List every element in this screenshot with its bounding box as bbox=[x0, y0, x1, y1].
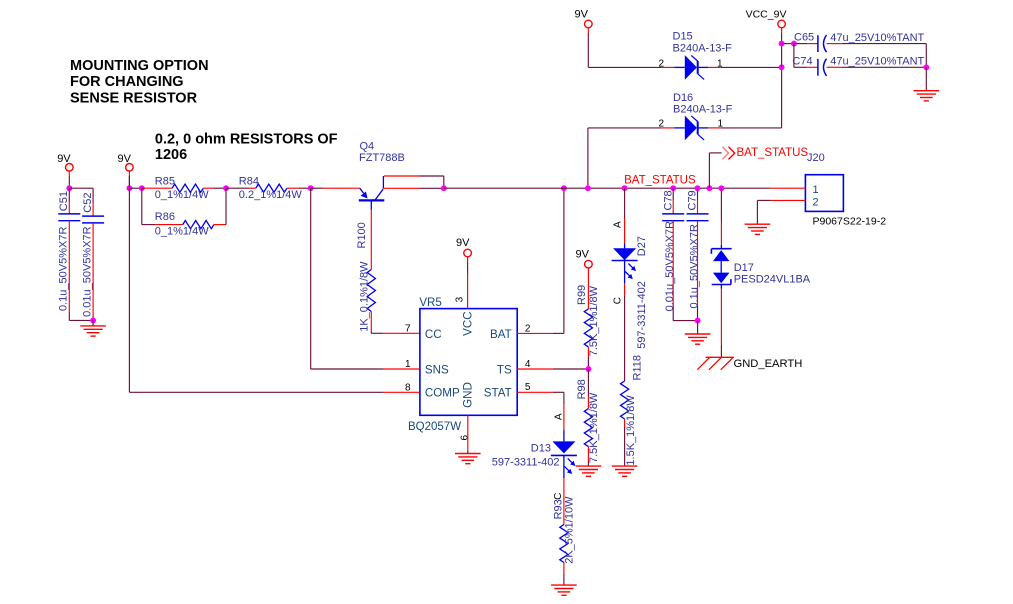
capacitor C51 bbox=[58, 214, 80, 221]
value C74 47u_25V10%TANT bbox=[830, 56, 924, 68]
svg-text:C65: C65 bbox=[794, 31, 814, 43]
node junction C78 C79 bottom bbox=[695, 318, 701, 324]
svg-text:R85: R85 bbox=[155, 176, 175, 188]
svg-text:9V: 9V bbox=[575, 9, 589, 21]
op-amp U VR5 BQ2057W box bbox=[420, 309, 517, 416]
svg-text:2: 2 bbox=[659, 58, 665, 69]
svg-text:J20: J20 bbox=[807, 152, 825, 164]
value D17 PESD24VL1BA bbox=[734, 273, 811, 285]
label R99 bbox=[576, 285, 588, 305]
pin name SNS bbox=[425, 363, 449, 376]
wire C52 lower lead bbox=[92, 223, 94, 321]
annotation text block 0.2 0 ohm resistors bbox=[155, 132, 338, 163]
wire C51 upper lead bbox=[68, 188, 70, 214]
pin label C D27 bbox=[612, 297, 623, 304]
svg-text:C: C bbox=[612, 297, 623, 304]
wire C52 upper lead bbox=[92, 203, 94, 216]
wire D27 anode lead bbox=[624, 188, 626, 248]
node junction TS R99 R98 bbox=[585, 366, 591, 372]
transistor Q4 PNP bbox=[359, 176, 385, 210]
svg-text:2: 2 bbox=[659, 118, 665, 129]
svg-text:5: 5 bbox=[525, 382, 531, 393]
svg-text:1206: 1206 bbox=[155, 147, 187, 163]
value J20 P9067S22-19-2 bbox=[813, 216, 887, 228]
svg-text:3: 3 bbox=[454, 296, 465, 302]
wire 9V to C51 top bbox=[68, 176, 70, 188]
svg-text:R98: R98 bbox=[576, 379, 588, 399]
pin name TS bbox=[497, 363, 512, 376]
net label BAT_STATUS off-page bbox=[737, 147, 809, 159]
svg-text:BAT_STATUS: BAT_STATUS bbox=[737, 147, 809, 159]
wire 9V to R85 node bbox=[128, 176, 130, 188]
node junction off-page branch bbox=[706, 185, 712, 191]
svg-text:C79: C79 bbox=[687, 190, 699, 210]
wire C78 upper lead bbox=[672, 188, 674, 214]
label BQ2057W bbox=[408, 421, 461, 433]
wire R84 right lead bbox=[287, 187, 311, 189]
ground R93 bbox=[551, 585, 577, 595]
svg-text:B240A-13-F: B240A-13-F bbox=[673, 42, 733, 54]
svg-text:0_1%1/4W: 0_1%1/4W bbox=[155, 226, 209, 238]
svg-text:R100: R100 bbox=[356, 222, 368, 248]
label D15 bbox=[673, 31, 693, 43]
svg-text:7.5K_1%1/8W: 7.5K_1%1/8W bbox=[588, 285, 600, 356]
pin 1 J20 bbox=[813, 184, 819, 196]
diode D16 B240A-13-F bbox=[674, 116, 708, 141]
svg-text:6: 6 bbox=[459, 435, 470, 441]
value C78 0.01u_50V5%X7R bbox=[664, 221, 676, 312]
node junction Q4 collector bbox=[441, 185, 447, 191]
ground J20 pin2 bbox=[745, 224, 771, 234]
wire main battery bus bbox=[444, 187, 771, 189]
TVS diode D17 PESD24VL1BA bbox=[711, 249, 731, 285]
pin number 2 bbox=[525, 324, 531, 335]
wire J20 pin1 bbox=[771, 187, 806, 189]
label D16 bbox=[673, 92, 693, 104]
capacitor C65 bbox=[818, 35, 827, 52]
svg-text:BAT_STATUS: BAT_STATUS bbox=[624, 175, 696, 187]
value R98 7.5K_1%1/8W bbox=[588, 392, 600, 463]
pin number 1 D16 bbox=[718, 118, 724, 129]
pin name STAT bbox=[484, 387, 512, 400]
wire to ground C51 C52 bbox=[92, 320, 94, 326]
label C65 bbox=[794, 31, 814, 43]
value R99 7.5K_1%1/8W bbox=[588, 285, 600, 356]
svg-text:R99: R99 bbox=[576, 285, 588, 305]
svg-text:0.2_1%1/4W: 0.2_1%1/4W bbox=[239, 189, 303, 201]
svg-text:0.01u_50V5%X7R: 0.01u_50V5%X7R bbox=[664, 221, 676, 312]
pin name CC bbox=[425, 328, 442, 341]
label R93 bbox=[553, 499, 565, 519]
value D27 597-3311-402 bbox=[636, 281, 648, 349]
wire SNS run bbox=[311, 188, 420, 369]
annotation text block MOUNTING OPTION bbox=[70, 58, 209, 107]
wire GND pin 6 bbox=[467, 415, 469, 453]
svg-text:4: 4 bbox=[525, 359, 531, 370]
svg-text:Q4: Q4 bbox=[360, 140, 375, 152]
label C74 bbox=[792, 56, 812, 68]
wire J20 pin2 bbox=[757, 200, 805, 224]
svg-text:D16: D16 bbox=[673, 92, 693, 104]
wire R118 to ground bbox=[624, 419, 626, 466]
wire C51 lower lead bbox=[69, 221, 93, 321]
wire VCC pin 3 bbox=[467, 262, 469, 309]
svg-text:D17: D17 bbox=[734, 262, 754, 274]
net label BAT_STATUS on bus bbox=[624, 175, 696, 187]
svg-text:9V: 9V bbox=[456, 237, 470, 249]
pin name VCC rotated bbox=[461, 311, 474, 335]
diode D15 B240A-13-F bbox=[674, 55, 708, 80]
wire to ground C78 C79 bbox=[697, 321, 699, 334]
pin label A D27 bbox=[612, 221, 623, 228]
pin number 5 bbox=[525, 382, 531, 393]
node junction D16 branch bbox=[585, 185, 591, 191]
ground VR5 GND bbox=[455, 454, 481, 464]
svg-text:597-3311-402: 597-3311-402 bbox=[636, 281, 648, 349]
label R98 bbox=[576, 379, 588, 399]
wire STAT pin to D13 bbox=[517, 392, 564, 441]
power symbol 9V (R99) bbox=[576, 249, 593, 273]
value R84 0.2_1%1/4W bbox=[239, 189, 303, 201]
wire R85 right lead bbox=[203, 187, 226, 189]
node junction R85 R86 right bbox=[223, 185, 229, 191]
wire R99 to TS node bbox=[587, 347, 589, 369]
label C78 bbox=[662, 190, 674, 210]
wire R86 branch right bbox=[214, 188, 226, 224]
wire to ground C65 C74 bbox=[925, 67, 927, 90]
wire 9V to D15 anode bbox=[588, 33, 674, 67]
node junction C79 bbox=[695, 185, 701, 191]
wire VCC_9V down bbox=[781, 33, 783, 67]
pin number 7 bbox=[405, 324, 411, 335]
svg-text:C52: C52 bbox=[82, 193, 94, 213]
svg-text:CC: CC bbox=[425, 328, 442, 341]
svg-text:B240A-13-F: B240A-13-F bbox=[673, 104, 733, 116]
wire Q4 collector loop top bbox=[384, 176, 444, 188]
resistor R98 bbox=[584, 409, 592, 447]
wire Q4 base to R100 bbox=[370, 210, 372, 270]
resistor R100 bbox=[367, 270, 375, 312]
node junction C78 bbox=[670, 185, 676, 191]
svg-text:R118: R118 bbox=[631, 355, 643, 380]
wire to Q4 emitter bbox=[311, 187, 360, 189]
svg-text:PESD24VL1BA: PESD24VL1BA bbox=[734, 273, 811, 285]
label C52 bbox=[82, 193, 94, 213]
svg-text:1.5K_1%1/8W: 1.5K_1%1/8W bbox=[625, 395, 637, 466]
svg-text:BAT: BAT bbox=[490, 328, 512, 341]
capacitor C79 bbox=[687, 214, 709, 221]
resistor R84 bbox=[256, 184, 287, 192]
wire C79 upper lead bbox=[697, 188, 699, 214]
svg-text:0.01u_50V5%X7R: 0.01u_50V5%X7R bbox=[81, 226, 93, 317]
svg-text:9V: 9V bbox=[576, 249, 590, 261]
value R85 0_1%1/4W bbox=[155, 189, 209, 201]
capacitor C74 bbox=[818, 59, 827, 76]
pin number 8 bbox=[405, 383, 411, 394]
value R100 1K_0.1%1/8W bbox=[359, 261, 371, 332]
svg-text:MOUNTING OPTION: MOUNTING OPTION bbox=[70, 58, 209, 74]
wire R86 branch left bbox=[142, 188, 183, 224]
svg-text:597-3311-402: 597-3311-402 bbox=[492, 457, 560, 469]
resistor R86 bbox=[183, 221, 214, 229]
pin number 1 bbox=[405, 359, 411, 370]
wire VCC to C65 branch bbox=[782, 43, 794, 45]
label D13 bbox=[531, 443, 551, 455]
label GND_EARTH bbox=[734, 358, 803, 370]
wire C74 right lead bbox=[827, 66, 927, 68]
wire C51 top to C52 top bbox=[69, 188, 93, 203]
label R100 bbox=[356, 222, 368, 248]
wire D17 top lead bbox=[720, 188, 722, 249]
value C51 0.1u_50V5%X7R bbox=[58, 227, 70, 311]
wire TS pin to R99 node bbox=[517, 368, 588, 370]
ground R118 bbox=[612, 466, 638, 476]
wire TS node to R98 bbox=[587, 369, 589, 409]
svg-text:C51: C51 bbox=[58, 191, 70, 211]
capacitor C52 bbox=[82, 216, 104, 223]
value C52 0.01u_50V5%X7R bbox=[81, 226, 93, 317]
label R85 bbox=[155, 176, 175, 188]
label D27 bbox=[636, 236, 648, 256]
pin label A D13 bbox=[554, 413, 565, 420]
power symbol 9V (C51 rail) bbox=[57, 153, 73, 176]
svg-text:47u_25V10%TANT: 47u_25V10%TANT bbox=[830, 56, 924, 68]
svg-text:FZT788B: FZT788B bbox=[359, 152, 405, 164]
wire BAT pin to main bbox=[517, 188, 564, 333]
value C65 47u_25V10%TANT bbox=[830, 32, 924, 44]
pin number 2 D16 bbox=[659, 118, 665, 129]
svg-text:TS: TS bbox=[497, 363, 512, 376]
wire C79 lower lead bbox=[697, 221, 699, 321]
wire Q4 collector to node bbox=[384, 187, 444, 189]
ground earth GND_EARTH bbox=[697, 357, 734, 369]
svg-text:SNS: SNS bbox=[425, 363, 449, 376]
svg-text:1K_0.1%1/8W: 1K_0.1%1/8W bbox=[359, 261, 371, 332]
node junction BAT main bbox=[561, 185, 567, 191]
svg-text:SENSE RESISTOR: SENSE RESISTOR bbox=[70, 91, 198, 107]
wire D17 bottom lead bbox=[720, 285, 722, 358]
svg-text:0.2, 0 ohm RESISTORS OF: 0.2, 0 ohm RESISTORS OF bbox=[155, 132, 338, 148]
label R84 bbox=[239, 176, 259, 188]
svg-text:2: 2 bbox=[813, 196, 819, 208]
node junction C51 top bbox=[66, 185, 72, 191]
wire R84 left lead bbox=[226, 187, 256, 189]
node junction R85 R86 left bbox=[139, 185, 145, 191]
svg-text:D27: D27 bbox=[636, 236, 648, 256]
svg-text:C74: C74 bbox=[792, 56, 812, 68]
svg-text:C78: C78 bbox=[662, 190, 674, 210]
svg-text:7: 7 bbox=[405, 324, 411, 335]
svg-text:GND: GND bbox=[461, 382, 474, 408]
wire D13 cathode lead bbox=[563, 455, 565, 524]
pin label C D13 bbox=[553, 493, 564, 500]
value D15 B240A-13-F bbox=[673, 42, 733, 54]
svg-text:47u_25V10%TANT: 47u_25V10%TANT bbox=[830, 32, 924, 44]
svg-text:A: A bbox=[612, 221, 623, 228]
pin number 2 D15 bbox=[659, 58, 665, 69]
off-page connector BAT_STATUS chevrons bbox=[722, 147, 734, 160]
capacitor C78 bbox=[662, 214, 684, 221]
power symbol 9V (VR5 VCC) bbox=[456, 237, 471, 262]
svg-text:A: A bbox=[554, 413, 565, 420]
wire D16 cathode to VCC rail bbox=[708, 67, 781, 128]
power symbol 9V (R85 rail) bbox=[118, 153, 134, 176]
value R86 0_1%1/4W bbox=[155, 226, 209, 238]
pin name COMP bbox=[425, 387, 460, 400]
node junction C65 C74 right bbox=[923, 64, 929, 70]
resistor R118 bbox=[621, 381, 629, 419]
wire 9V node to R86 branch bbox=[129, 187, 141, 189]
label J20 bbox=[807, 152, 825, 164]
node junction 9V R85 bbox=[126, 185, 132, 191]
value D16 B240A-13-F bbox=[673, 104, 733, 116]
connector J20 box bbox=[805, 175, 843, 212]
node junction D17 bbox=[718, 185, 724, 191]
resistor R93 bbox=[560, 525, 568, 563]
wire R85 left lead bbox=[142, 187, 172, 189]
pin number 4 bbox=[525, 359, 531, 370]
svg-text:D13: D13 bbox=[531, 443, 551, 455]
svg-text:P9067S22-19-2: P9067S22-19-2 bbox=[813, 216, 887, 228]
ground C51 C52 bbox=[80, 326, 106, 336]
node junction D27 branch bbox=[622, 185, 628, 191]
ground C78 C79 bbox=[685, 334, 711, 344]
node junction SNS branch bbox=[308, 185, 314, 191]
pin number 1 D15 bbox=[717, 58, 723, 69]
wire C65 left lead bbox=[794, 43, 818, 45]
svg-text:R86: R86 bbox=[155, 211, 175, 223]
wire R98 to ground bbox=[587, 447, 589, 467]
svg-text:0.1u_50V5%X7R: 0.1u_50V5%X7R bbox=[58, 227, 70, 311]
svg-text:VCC_9V: VCC_9V bbox=[746, 9, 787, 21]
wire D27 cathode lead bbox=[624, 261, 626, 382]
value R93 2K_5%1/10W bbox=[564, 496, 576, 564]
node junction C51 C52 bottom bbox=[90, 317, 96, 323]
power symbol 9V (D15 input) bbox=[575, 9, 593, 34]
svg-text:VR5: VR5 bbox=[419, 297, 441, 309]
svg-text:R84: R84 bbox=[239, 176, 259, 188]
ground R98 bbox=[576, 466, 602, 476]
pin 2 J20 bbox=[813, 196, 819, 208]
wire R93 to ground bbox=[563, 563, 565, 586]
svg-text:0.1u_50V5%X7R: 0.1u_50V5%X7R bbox=[688, 224, 700, 308]
wire C78 lower lead bbox=[673, 221, 697, 321]
wire off-page BAT_STATUS bbox=[709, 153, 721, 188]
pin number 6 rotated bbox=[459, 435, 470, 441]
value C79 0.1u_50V5%X7R bbox=[688, 224, 700, 308]
svg-text:BQ2057W: BQ2057W bbox=[408, 421, 461, 433]
resistor R85 bbox=[172, 184, 203, 192]
svg-text:D15: D15 bbox=[673, 31, 693, 43]
svg-text:2K_5%1/10W: 2K_5%1/10W bbox=[564, 496, 576, 564]
label D17 bbox=[734, 262, 754, 274]
label C51 bbox=[58, 191, 70, 211]
svg-text:0_1%1/4W: 0_1%1/4W bbox=[155, 189, 209, 201]
svg-text:7.5K_1%1/8W: 7.5K_1%1/8W bbox=[588, 392, 600, 463]
label VR5 bbox=[419, 297, 441, 309]
pin name GND rotated bbox=[461, 382, 474, 408]
label Q4 bbox=[360, 140, 375, 152]
wire COMP run bbox=[129, 176, 419, 392]
power symbol VCC_9V bbox=[746, 9, 787, 34]
wire C74 branch down bbox=[794, 44, 818, 68]
resistor R99 bbox=[584, 309, 592, 347]
value R118 1.5K_1%1/8W bbox=[625, 395, 637, 466]
wire C65 right lead bbox=[827, 44, 927, 68]
pin name BAT bbox=[490, 328, 512, 341]
wire D16 anode branch bbox=[588, 128, 674, 188]
svg-text:1: 1 bbox=[813, 184, 819, 196]
LED D13 bbox=[551, 441, 577, 474]
label R118 bbox=[631, 355, 643, 380]
value D13 597-3311-402 bbox=[492, 457, 560, 469]
wire R100 to CC pin bbox=[371, 312, 419, 334]
svg-text:GND_EARTH: GND_EARTH bbox=[734, 358, 803, 370]
svg-text:FOR CHANGING: FOR CHANGING bbox=[70, 74, 184, 90]
svg-text:STAT: STAT bbox=[484, 387, 512, 400]
pin number 3 rotated bbox=[454, 296, 465, 302]
svg-text:COMP: COMP bbox=[425, 387, 460, 400]
svg-text:VCC: VCC bbox=[461, 311, 474, 335]
label C79 bbox=[687, 190, 699, 210]
value Q4 FZT788B bbox=[359, 152, 405, 164]
wire 9V to R99 bbox=[587, 272, 589, 309]
label R86 bbox=[155, 211, 175, 223]
node junction C65 C74 branch bbox=[791, 41, 797, 47]
ground C65 C74 bbox=[914, 91, 940, 101]
node junction D15 VCC rail bbox=[779, 64, 785, 70]
LED D27 bbox=[612, 248, 638, 279]
node junction VCC C65 bbox=[779, 41, 785, 47]
wire D15 cathode to VCC rail bbox=[708, 66, 781, 68]
